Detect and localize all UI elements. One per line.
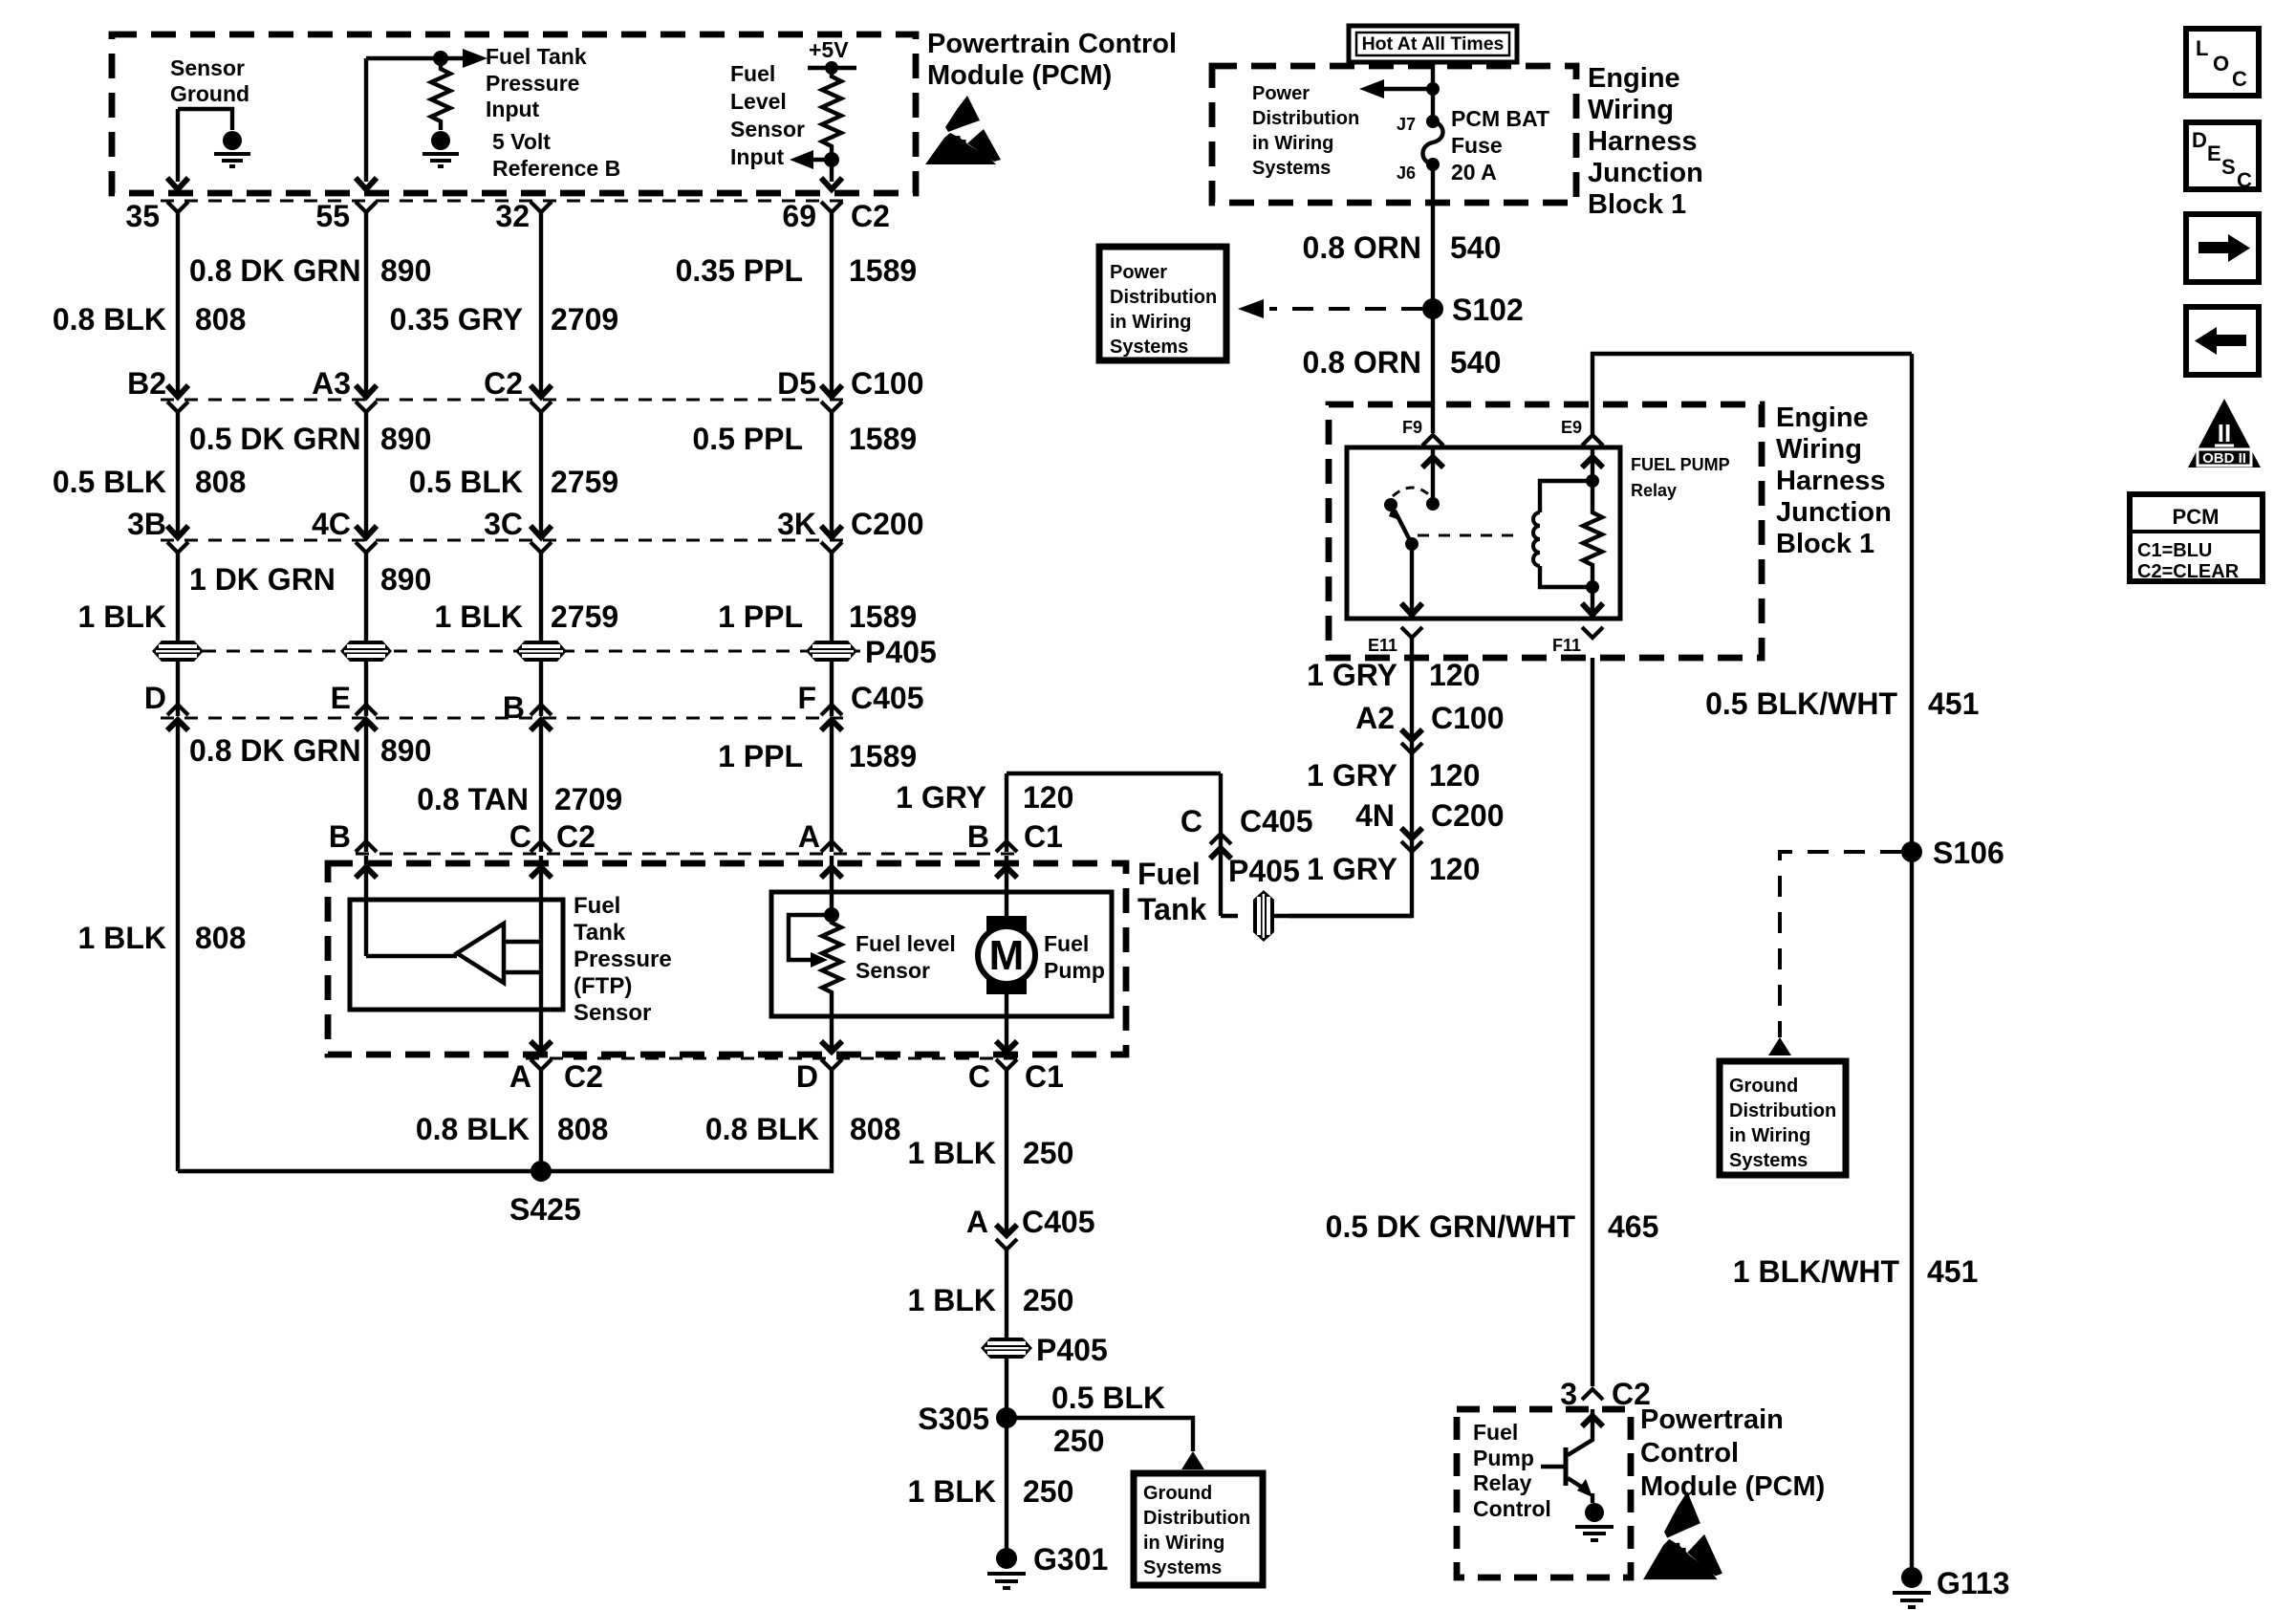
resistor (fuel level sensor input pull-up) bbox=[822, 68, 841, 153]
label: Fuel Pump bbox=[1044, 931, 1105, 983]
fuel pump motor brushes bbox=[986, 916, 1027, 994]
svg-text:C405: C405 bbox=[851, 681, 924, 715]
feed wire corner to C405 pin C bbox=[1221, 773, 1412, 916]
pin 3B at C200 bbox=[127, 507, 188, 553]
label 1 DK GRN 890 bbox=[189, 562, 431, 597]
svg-text:1589: 1589 bbox=[849, 422, 917, 456]
svg-text:O: O bbox=[2213, 52, 2229, 76]
svg-text:Sensor: Sensor bbox=[730, 117, 805, 141]
connector row C1/C2 below tank (thin dashed) bbox=[526, 1056, 1021, 1059]
svg-text:0.35 PPL: 0.35 PPL bbox=[676, 253, 803, 288]
svg-text:A3: A3 bbox=[312, 366, 351, 401]
svg-text:C2: C2 bbox=[564, 1059, 603, 1094]
svg-text:540: 540 bbox=[1450, 345, 1501, 380]
arrow right to Fuel Tank Pressure Input label bbox=[463, 49, 487, 68]
svg-text:890: 890 bbox=[380, 422, 431, 456]
pin B at C405 bbox=[503, 690, 552, 730]
svg-text:0.8 BLK: 0.8 BLK bbox=[416, 1112, 530, 1146]
svg-text:Relay: Relay bbox=[1473, 1470, 1532, 1495]
svg-text:Ground: Ground bbox=[1729, 1076, 1798, 1097]
svg-text:Systems: Systems bbox=[1110, 337, 1188, 358]
wire W3 segment bbox=[539, 662, 543, 716]
relay movable arm with arrow bbox=[1389, 506, 1419, 551]
relay dashed arc between contacts bbox=[1393, 488, 1431, 496]
svg-text:890: 890 bbox=[380, 562, 431, 597]
svg-text:808: 808 bbox=[195, 302, 246, 337]
inline connector P405 on wire W1 bbox=[152, 641, 204, 662]
wire W5 segment C405-P405 bbox=[1005, 1250, 1008, 1549]
wire W1 segment C100-C200 bbox=[176, 412, 180, 535]
svg-text:C1=BLU: C1=BLU bbox=[2137, 540, 2212, 561]
svg-text:D: D bbox=[796, 1059, 818, 1094]
label 0.35 PPL 1589 bbox=[676, 253, 918, 288]
wire fuel pump to C pin bbox=[996, 994, 1017, 1052]
svg-text:3K: 3K bbox=[777, 507, 816, 541]
svg-text:808: 808 bbox=[195, 921, 246, 955]
ground symbol inside PCM (sensor ground) bbox=[214, 131, 250, 166]
label: PCM BAT Fuse 20 A bbox=[1451, 106, 1549, 185]
svg-text:Systems: Systems bbox=[1252, 158, 1331, 179]
svg-text:C1: C1 bbox=[1024, 819, 1063, 854]
fuse PCM BAT 20A bbox=[1423, 115, 1443, 171]
label: Fuel Pump Relay Control bbox=[1473, 1420, 1551, 1521]
label 0.8 ORN 540 (upper) bbox=[1303, 230, 1502, 265]
wire from Hot At All Times into junction block bbox=[1431, 62, 1435, 121]
pin label J7 bbox=[1397, 115, 1416, 134]
svg-text:Distribution: Distribution bbox=[1143, 1508, 1250, 1529]
label 0.5 BLK 250 (branch) bbox=[1051, 1381, 1165, 1458]
svg-text:E: E bbox=[331, 681, 351, 715]
wire W2 segment C405 to tank bbox=[364, 720, 368, 852]
svg-text:0.35 GRY: 0.35 GRY bbox=[390, 302, 523, 337]
S425 bus wire bbox=[178, 1169, 541, 1173]
svg-text:A: A bbox=[966, 1205, 988, 1239]
horizontal feed wire E9 to right wire bbox=[1592, 354, 1912, 435]
svg-text:D: D bbox=[144, 681, 166, 715]
svg-text:Distribution: Distribution bbox=[1110, 287, 1217, 308]
wire W3 segment bbox=[539, 553, 543, 641]
fuel level sensor wiper arm bbox=[789, 915, 832, 968]
branch wire S305 to ground distribution bbox=[1007, 1418, 1193, 1451]
label 0.8 BLK 808 (wire W3 below tank) bbox=[416, 1112, 609, 1146]
label 1 GRY 120 (fuel pump feed at tank) bbox=[896, 780, 1073, 815]
svg-text:Harness: Harness bbox=[1588, 126, 1697, 157]
DESC reference box bbox=[2186, 122, 2259, 192]
svg-text:0.5 BLK/WHT: 0.5 BLK/WHT bbox=[1705, 686, 1897, 721]
svg-text:0.8 ORN: 0.8 ORN bbox=[1303, 230, 1421, 265]
svg-text:Sensor: Sensor bbox=[170, 55, 245, 80]
svg-text:B: B bbox=[329, 819, 351, 854]
pin 4C at C200 bbox=[312, 507, 377, 553]
svg-text:(FTP): (FTP) bbox=[574, 973, 632, 999]
wire fuel level sensor to D pin bbox=[821, 1016, 842, 1052]
svg-text:Junction: Junction bbox=[1588, 158, 1703, 188]
svg-text:2709: 2709 bbox=[551, 302, 618, 337]
svg-text:32: 32 bbox=[495, 199, 530, 233]
label 0.35 GRY 2709 bbox=[390, 302, 619, 337]
svg-text:Ground: Ground bbox=[1143, 1483, 1212, 1504]
pin E9 bbox=[1561, 418, 1603, 446]
inline connector P405 on wire W3 bbox=[515, 641, 567, 662]
PCM connector row C2 (thin dashed) bbox=[161, 199, 849, 202]
feed wire top run to tank B pin bbox=[1007, 772, 1221, 775]
transistor Q1 collector wire with arrow bbox=[1568, 1409, 1603, 1455]
wire W4 into tank with up arrow bbox=[821, 856, 842, 915]
svg-text:A: A bbox=[509, 1059, 531, 1094]
svg-text:1 GRY: 1 GRY bbox=[1307, 852, 1397, 886]
svg-text:B: B bbox=[967, 819, 989, 854]
relay coil output wire to F11 bbox=[1582, 587, 1603, 615]
svg-text:Input: Input bbox=[730, 144, 785, 169]
svg-text:Wiring: Wiring bbox=[1588, 95, 1674, 125]
svg-text:C405: C405 bbox=[1022, 1205, 1095, 1239]
svg-text:0.5 PPL: 0.5 PPL bbox=[692, 422, 803, 456]
svg-text:Relay: Relay bbox=[1631, 481, 1677, 500]
relay coil feed from E9 bbox=[1582, 447, 1603, 488]
arrow down on sensor ground wire bbox=[167, 178, 188, 189]
svg-text:540: 540 bbox=[1450, 230, 1501, 265]
svg-text:Engine: Engine bbox=[1588, 63, 1680, 94]
svg-text:1 BLK: 1 BLK bbox=[78, 599, 166, 634]
wire W1 sensor ground 0.8 BLK 808 (segment PCM to C100) bbox=[176, 212, 180, 395]
transistor Q1 emitter with arrow bbox=[1568, 1478, 1592, 1503]
off-page triangle to ground distribution (S106) bbox=[1768, 1037, 1791, 1055]
connector row C200 (thin dashed) bbox=[161, 538, 849, 541]
svg-text:Systems: Systems bbox=[1729, 1150, 1808, 1171]
svg-text:Systems: Systems bbox=[1143, 1557, 1222, 1578]
connector A2 C100 on feed wire bbox=[1355, 701, 1504, 753]
wire W2 segment bbox=[364, 412, 368, 535]
label: Sensor Ground bbox=[170, 55, 249, 106]
inline connector P405 on wire W4 bbox=[806, 641, 857, 662]
svg-text:3C: 3C bbox=[484, 507, 523, 541]
ESD sensitivity symbol (top PCM) bbox=[925, 96, 1001, 164]
svg-text:Hot At All Times: Hot At All Times bbox=[1362, 33, 1505, 54]
label 1 BLK 2759 bbox=[435, 599, 619, 634]
label 0.8 DK GRN 890 (lower) bbox=[189, 733, 431, 768]
wire W2 segment bbox=[364, 662, 368, 716]
label: +5V bbox=[809, 37, 849, 62]
svg-text:1 GRY: 1 GRY bbox=[1307, 758, 1397, 793]
svg-text:C: C bbox=[509, 819, 531, 854]
svg-text:S102: S102 bbox=[1452, 293, 1524, 327]
connector row C1/C2 above fuel tank (thin dashed) bbox=[356, 852, 1021, 855]
svg-text:A2: A2 bbox=[1355, 701, 1395, 735]
FTP sensor output line to wire W2 bbox=[366, 954, 457, 958]
svg-text:808: 808 bbox=[557, 1112, 608, 1146]
svg-text:C: C bbox=[968, 1059, 990, 1094]
pin B at tank C2 bbox=[329, 819, 377, 854]
label 0.5 BLK 808 bbox=[53, 465, 247, 499]
svg-text:4N: 4N bbox=[1355, 798, 1395, 833]
svg-text:J7: J7 bbox=[1397, 115, 1416, 134]
svg-text:1 BLK: 1 BLK bbox=[908, 1136, 996, 1170]
svg-text:PCM BAT: PCM BAT bbox=[1451, 106, 1549, 131]
svg-text:1 GRY: 1 GRY bbox=[896, 780, 986, 815]
svg-text:Fuel: Fuel bbox=[1044, 931, 1089, 956]
svg-text:465: 465 bbox=[1608, 1209, 1658, 1244]
label 0.8 BLK 808 (wire D below tank) bbox=[705, 1112, 901, 1146]
splice S102 bbox=[1422, 293, 1524, 327]
connector row C405 (thin dashed) bbox=[161, 716, 849, 719]
wire W2 segment bbox=[364, 212, 368, 395]
wire: fuel tank pressure input inside PCM bbox=[366, 58, 463, 182]
label 1 BLK 250 (above C405) bbox=[908, 1136, 1074, 1170]
svg-text:0.8 TAN: 0.8 TAN bbox=[417, 782, 529, 816]
ground symbol inside PCM (FTP input) bbox=[422, 131, 459, 166]
label: FUEL PUMP Relay bbox=[1631, 455, 1730, 500]
wire W4 segment bbox=[830, 553, 834, 641]
label: Fuel Level Sensor Input bbox=[730, 61, 805, 169]
label: Fuel level Sensor bbox=[856, 931, 956, 983]
pin A / connector C405 on pump ground bbox=[966, 1205, 1095, 1250]
svg-text:Level: Level bbox=[730, 89, 787, 114]
svg-text:Control: Control bbox=[1640, 1438, 1739, 1469]
svg-text:0.5 DK GRN/WHT: 0.5 DK GRN/WHT bbox=[1326, 1209, 1576, 1244]
svg-text:1 BLK: 1 BLK bbox=[908, 1474, 996, 1509]
svg-text:250: 250 bbox=[1023, 1136, 1073, 1170]
wire W3 exit arrow at tank bottom bbox=[531, 1041, 552, 1052]
splice S305 bbox=[918, 1402, 1017, 1436]
svg-text:4C: 4C bbox=[312, 507, 351, 541]
label: Fuel Tank bbox=[1137, 857, 1207, 926]
svg-text:Fuse: Fuse bbox=[1451, 133, 1503, 158]
svg-text:0.8 DK GRN: 0.8 DK GRN bbox=[189, 733, 361, 768]
inline connector P405 on pump ground bbox=[981, 1333, 1108, 1367]
svg-text:120: 120 bbox=[1429, 758, 1480, 793]
Power Distribution in Wiring Systems box (solid, left) bbox=[1099, 247, 1226, 360]
pin 55 bbox=[315, 199, 377, 233]
svg-text:C: C bbox=[1180, 804, 1202, 838]
svg-text:1589: 1589 bbox=[849, 599, 917, 634]
svg-text:Pump: Pump bbox=[1473, 1446, 1534, 1470]
svg-text:0.5 BLK: 0.5 BLK bbox=[1051, 1381, 1165, 1415]
svg-text:2709: 2709 bbox=[554, 782, 622, 816]
svg-text:Tank: Tank bbox=[574, 920, 626, 946]
svg-text:OBD II: OBD II bbox=[2202, 450, 2246, 467]
ground symbol (PCM internal) bbox=[1575, 1503, 1614, 1540]
svg-text:Power: Power bbox=[1110, 262, 1167, 283]
OBD II symbol bbox=[2188, 399, 2261, 468]
svg-text:0.5 DK GRN: 0.5 DK GRN bbox=[189, 422, 361, 456]
wire W1 segment C200-P405 bbox=[176, 553, 180, 641]
pin D5 / connector C100 bbox=[777, 366, 923, 412]
branch arrow to Power Distribution (inside block) bbox=[1359, 79, 1440, 98]
label 1 BLK (wire W1) bbox=[78, 599, 166, 634]
wire W3 into tank with up arrow bbox=[531, 856, 552, 900]
Ground Distribution in Wiring Systems box (S106) bbox=[1720, 1061, 1846, 1175]
wire fuse to S102 bbox=[1431, 164, 1435, 304]
svg-text:C200: C200 bbox=[1431, 798, 1505, 833]
pin B2 at C100 bbox=[127, 366, 188, 412]
svg-text:120: 120 bbox=[1429, 658, 1480, 692]
svg-text:0.5 BLK: 0.5 BLK bbox=[409, 465, 523, 499]
svg-text:A: A bbox=[798, 819, 820, 854]
svg-text:S106: S106 bbox=[1933, 836, 2004, 870]
label 0.8 ORN 540 (lower) bbox=[1303, 345, 1502, 380]
pin 69 / connector C2 bbox=[782, 199, 890, 233]
svg-text:Fuel Tank: Fuel Tank bbox=[486, 44, 587, 69]
relay fixed contact bbox=[1384, 498, 1397, 511]
svg-text:3B: 3B bbox=[127, 507, 166, 541]
label 0.8 BLK 808 bbox=[53, 302, 247, 337]
svg-text:Pump: Pump bbox=[1044, 958, 1105, 983]
resistor (FTP input pull-up) bbox=[431, 58, 450, 130]
label: 5 Volt Reference B bbox=[492, 129, 620, 181]
label 1 PPL 1589 bbox=[718, 599, 917, 634]
svg-text:Fuel level: Fuel level bbox=[856, 931, 956, 956]
svg-text:in Wiring: in Wiring bbox=[1110, 312, 1191, 333]
pin 3C at C200 bbox=[484, 507, 552, 553]
svg-text:Reference B: Reference B bbox=[492, 156, 620, 181]
forward arrow box bbox=[2186, 214, 2259, 282]
ground G113 bbox=[1893, 1566, 2010, 1607]
fuel level sensor junction dot bbox=[824, 907, 839, 923]
svg-text:Powertrain: Powertrain bbox=[1640, 1404, 1784, 1435]
svg-text:Fuel: Fuel bbox=[574, 893, 620, 919]
svg-text:Sensor: Sensor bbox=[574, 1000, 651, 1026]
svg-text:C100: C100 bbox=[851, 366, 924, 401]
svg-text:E9: E9 bbox=[1561, 418, 1582, 437]
svg-text:Fuel: Fuel bbox=[1137, 857, 1201, 891]
svg-text:G301: G301 bbox=[1033, 1542, 1108, 1577]
pin C / connector C1 below tank bbox=[968, 1059, 1064, 1094]
svg-text:S: S bbox=[2221, 155, 2236, 179]
svg-text:Pressure: Pressure bbox=[574, 946, 672, 972]
svg-text:1 BLK/WHT: 1 BLK/WHT bbox=[1733, 1254, 1900, 1289]
relay resistor (right branch) bbox=[1583, 481, 1602, 594]
svg-text:Sensor: Sensor bbox=[856, 958, 930, 983]
svg-text:2759: 2759 bbox=[551, 599, 618, 634]
dashed branch S106 to ground distribution bbox=[1780, 852, 1901, 1037]
pin D below tank bbox=[796, 1059, 842, 1094]
label 0.8 DK GRN 890 bbox=[189, 253, 431, 288]
label 1 PPL 1589 (lower) bbox=[718, 739, 917, 773]
svg-text:250: 250 bbox=[1053, 1424, 1104, 1458]
svg-text:L: L bbox=[2196, 36, 2208, 60]
fuel level sensor resistor bbox=[822, 915, 841, 1016]
svg-text:C100: C100 bbox=[1431, 701, 1505, 735]
svg-text:F9: F9 bbox=[1402, 418, 1422, 437]
pin F / connector C405 bbox=[797, 681, 923, 730]
Fuel Tank Pressure (FTP) Sensor box bbox=[350, 900, 563, 1010]
relay dashed actuator link bbox=[1418, 534, 1522, 537]
svg-text:S305: S305 bbox=[918, 1402, 989, 1436]
PCM module dashed outline (top left Powertrain Control Module) bbox=[112, 34, 916, 193]
inline connector P405 on horizontal feed wire bbox=[1253, 890, 1274, 942]
wire W4 segment bbox=[830, 212, 834, 395]
svg-text:C1: C1 bbox=[1025, 1059, 1064, 1094]
svg-text:Tank: Tank bbox=[1137, 892, 1207, 926]
svg-text:1 BLK: 1 BLK bbox=[908, 1283, 996, 1317]
svg-text:1 BLK: 1 BLK bbox=[435, 599, 523, 634]
svg-text:E: E bbox=[2207, 141, 2221, 165]
pin 35 bbox=[125, 199, 188, 233]
svg-text:J6: J6 bbox=[1397, 163, 1416, 183]
svg-text:55: 55 bbox=[315, 199, 350, 233]
label 0.5 BLK/WHT 451 bbox=[1705, 686, 1979, 721]
label: Powertrain Control Module (PCM) (bottom) bbox=[1640, 1404, 1825, 1502]
svg-text:1 PPL: 1 PPL bbox=[718, 599, 803, 634]
svg-text:Pressure: Pressure bbox=[486, 71, 579, 96]
wire W4 segment bbox=[830, 662, 834, 716]
wire W3 to S425 bbox=[539, 1070, 543, 1171]
pin A at tank bbox=[798, 819, 842, 854]
svg-text:808: 808 bbox=[195, 465, 246, 499]
label 1 BLK 250 (below S305) bbox=[908, 1474, 1074, 1509]
pin C2 at C100 bbox=[484, 366, 552, 412]
ground G301 bbox=[987, 1542, 1108, 1588]
wire: sensor ground jog inside PCM bbox=[178, 109, 232, 182]
wire W5 fuel pump ground run bbox=[1005, 1070, 1008, 1231]
svg-text:FUEL PUMP: FUEL PUMP bbox=[1631, 455, 1730, 474]
wire W3 segment bbox=[539, 720, 543, 852]
svg-text:1 GRY: 1 GRY bbox=[1307, 658, 1397, 692]
Engine Wiring Harness Junction Block 1 dashed box (relay) bbox=[1329, 404, 1762, 658]
label: Powertrain Control Module (PCM) title bbox=[927, 29, 1177, 91]
ESD sensitivity symbol (bottom PCM) bbox=[1643, 1491, 1722, 1579]
svg-text:Fuel: Fuel bbox=[730, 61, 775, 86]
svg-text:C2: C2 bbox=[484, 366, 523, 401]
relay switch common wire from F9 bbox=[1422, 447, 1443, 511]
wire W3 segment bbox=[539, 412, 543, 535]
label: Engine Wiring Harness Junction Block 1 (top) bbox=[1588, 63, 1703, 220]
pin E11 bbox=[1368, 627, 1422, 655]
wire F11 down to PCM pin 3 bbox=[1591, 658, 1594, 1386]
svg-text:Power: Power bbox=[1252, 83, 1310, 104]
label: Fuel Tank Pressure (FTP) Sensor bbox=[574, 893, 672, 1026]
svg-text:Input: Input bbox=[486, 97, 540, 121]
svg-text:PCM: PCM bbox=[2173, 505, 2220, 529]
back arrow box bbox=[2186, 307, 2259, 375]
svg-text:F11: F11 bbox=[1552, 636, 1581, 655]
wire W4 segment bbox=[830, 412, 834, 535]
pin F9 bbox=[1402, 418, 1443, 446]
svg-text:F: F bbox=[797, 681, 816, 715]
svg-text:451: 451 bbox=[1927, 1254, 1978, 1289]
svg-text:Block 1: Block 1 bbox=[1588, 189, 1686, 220]
svg-text:B2: B2 bbox=[127, 366, 166, 401]
arrow down on fuel level sensor wire at box exit bbox=[821, 178, 842, 189]
wire S102 to relay F9 bbox=[1431, 309, 1435, 433]
label 1 BLK 808 (wire W1 lower) bbox=[78, 921, 247, 955]
label 1 BLK 250 (above P405) bbox=[908, 1283, 1074, 1317]
svg-text:M: M bbox=[989, 932, 1025, 979]
svg-text:Distribution: Distribution bbox=[1252, 108, 1359, 129]
svg-text:in Wiring: in Wiring bbox=[1252, 133, 1333, 154]
svg-text:B: B bbox=[503, 690, 525, 725]
svg-text:+5V: +5V bbox=[809, 37, 849, 62]
svg-text:Harness: Harness bbox=[1776, 466, 1885, 496]
splice S106 bbox=[1901, 836, 2004, 870]
transistor Q1 base bbox=[1541, 1447, 1566, 1486]
svg-text:35: 35 bbox=[125, 199, 160, 233]
svg-text:Powertrain Control: Powertrain Control bbox=[927, 29, 1177, 59]
dashed branch S102 to Power Distribution box bbox=[1238, 299, 1422, 318]
wire W2 into tank with up arrow bbox=[356, 856, 377, 956]
svg-text:2759: 2759 bbox=[551, 465, 618, 499]
svg-text:1 PPL: 1 PPL bbox=[718, 739, 803, 773]
FTP sensor amplifier triangle bbox=[457, 924, 504, 983]
svg-text:II: II bbox=[2218, 419, 2231, 447]
pin C / connector C2 at tank bbox=[509, 819, 596, 854]
svg-text:Block 1: Block 1 bbox=[1776, 529, 1874, 559]
relay switch output wire to E11 bbox=[1401, 544, 1422, 615]
svg-text:451: 451 bbox=[1928, 686, 1979, 721]
wire D to S425 bbox=[541, 1070, 832, 1171]
svg-text:in Wiring: in Wiring bbox=[1143, 1533, 1224, 1554]
svg-text:in Wiring: in Wiring bbox=[1729, 1125, 1810, 1146]
